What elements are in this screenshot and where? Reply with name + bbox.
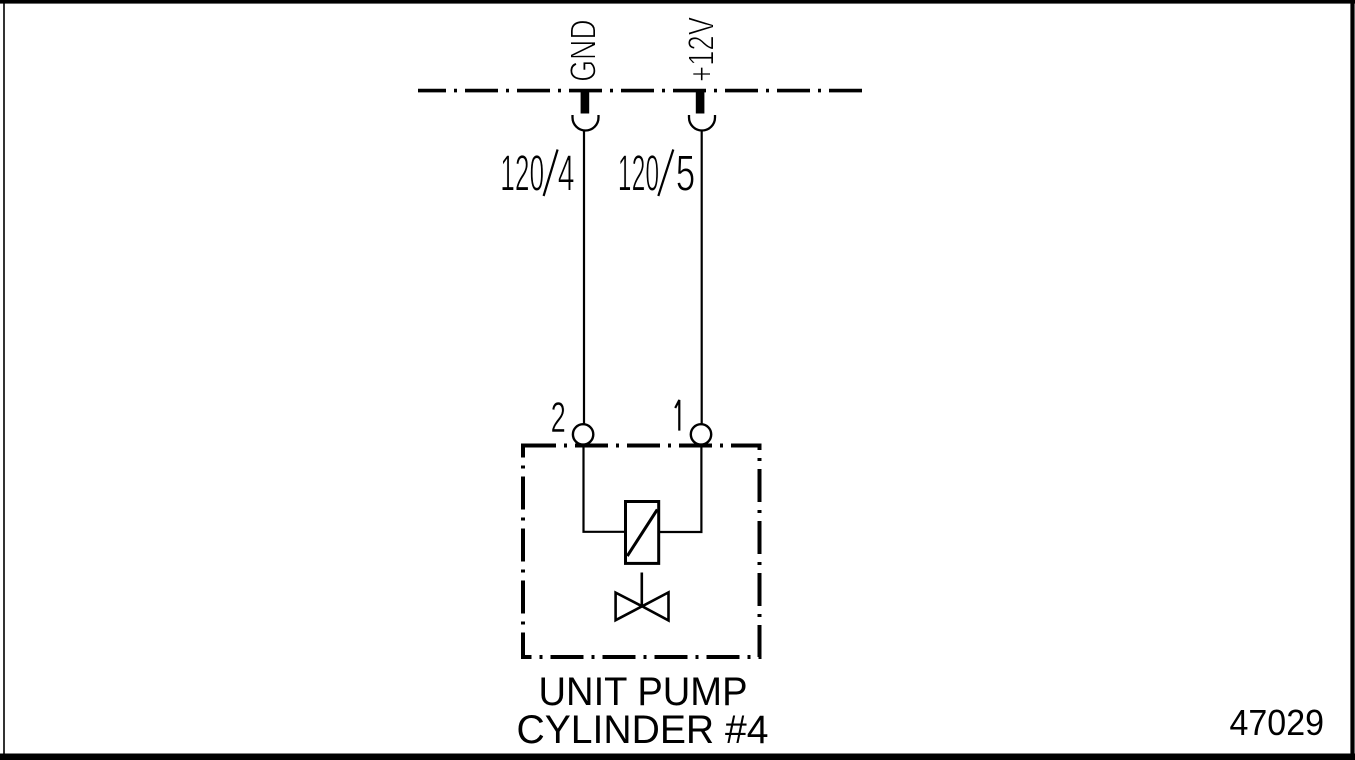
svg-text:2: 2: [551, 394, 566, 442]
pin label 1: [675, 400, 679, 431]
wire pin 1 to solenoid: [659, 445, 702, 532]
connector socket arc GND: [573, 115, 599, 131]
connector box (dash-dot enclosure): [523, 446, 760, 658]
+12V bus tick: [696, 89, 705, 114]
valve symbol (bowtie): [616, 592, 669, 620]
pin 2 connector circle: [573, 424, 593, 444]
svg-text:4: 4: [558, 144, 575, 201]
wire label 120/5 slash: [658, 150, 673, 197]
svg-text:GND: GND: [563, 19, 604, 81]
wire label 120/4 slash: [544, 150, 558, 197]
solenoid coil U (rect): [626, 502, 659, 564]
svg-text:CYLINDER #4: CYLINDER #4: [517, 708, 769, 752]
border frame bottom: [0, 754, 1355, 760]
GND bus tick: [581, 89, 590, 114]
pin 1 connector circle: [691, 424, 711, 444]
wire pin 2 to solenoid: [584, 445, 627, 532]
valve stem: [640, 573, 643, 607]
svg-text:120: 120: [500, 144, 544, 201]
power bus dash-dot line: [418, 89, 865, 93]
border frame right: [1350, 0, 1354, 760]
wire 120/4 (GND to pin 2): [583, 131, 585, 425]
connector socket arc +12V: [689, 115, 715, 131]
svg-text:5: 5: [676, 144, 696, 201]
svg-text:120: 120: [618, 144, 659, 201]
solenoid diagonal: [627, 510, 657, 557]
border frame top: [0, 0, 1355, 4]
svg-text:+12V: +12V: [680, 17, 721, 82]
wire 120/5 (+12V to pin 1): [701, 131, 703, 425]
svg-text:47029: 47029: [1230, 702, 1325, 743]
border frame left: [3, 0, 5, 760]
